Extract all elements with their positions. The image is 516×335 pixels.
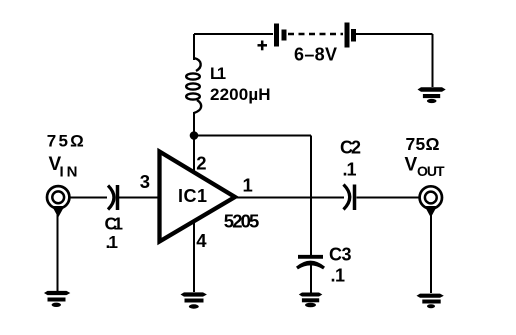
svg-text:75Ω: 75Ω <box>406 134 440 154</box>
svg-text:6–8V: 6–8V <box>294 44 337 64</box>
svg-text:.1: .1 <box>106 232 119 252</box>
svg-text:.1: .1 <box>331 266 346 286</box>
svg-text:V: V <box>405 155 418 176</box>
svg-text:2200µH: 2200µH <box>210 85 271 104</box>
svg-text:3: 3 <box>140 171 150 192</box>
svg-text:IN: IN <box>60 164 78 181</box>
svg-text:C2: C2 <box>340 138 361 158</box>
svg-text:C3: C3 <box>329 245 352 265</box>
svg-text:5205: 5205 <box>224 211 259 232</box>
svg-text:1: 1 <box>243 175 253 196</box>
svg-text:IC1: IC1 <box>178 186 207 206</box>
svg-text:L1: L1 <box>210 65 226 83</box>
svg-text:75Ω: 75Ω <box>47 132 84 151</box>
svg-text:4: 4 <box>196 230 207 251</box>
svg-text:2: 2 <box>196 152 206 173</box>
svg-text:.1: .1 <box>343 160 357 180</box>
svg-text:C1: C1 <box>105 213 124 233</box>
svg-text:OUT: OUT <box>417 163 445 179</box>
